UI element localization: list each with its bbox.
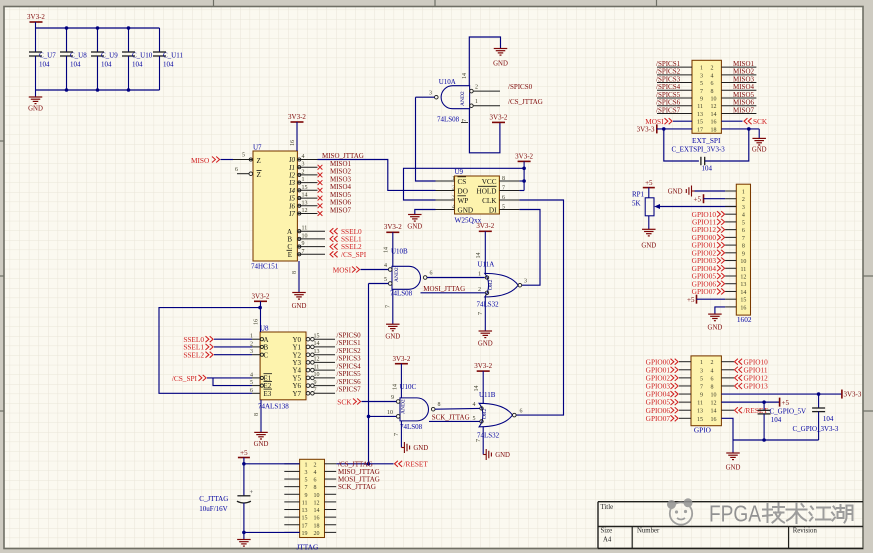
svg-text:16: 16 (290, 140, 296, 146)
JTAG row 5 pins 9/10 (284, 493, 299, 495)
svg-text:5: 5 (305, 478, 308, 484)
svg-text:MISO_JTTAG: MISO_JTTAG (322, 152, 364, 160)
ground (U11A) (484, 297, 486, 331)
1602 pin 5 (725, 221, 736, 223)
mux U7 body (253, 151, 297, 261)
svg-text:11: 11 (302, 226, 308, 232)
watermark glyph hu (832, 505, 853, 523)
wire WP to 3V3-2 rail (404, 168, 525, 200)
svg-text:+5: +5 (645, 179, 653, 187)
svg-text:8: 8 (711, 89, 714, 95)
svg-text:Y4: Y4 (292, 367, 301, 375)
1602 pin 4 (725, 213, 736, 215)
svg-text:GND: GND (28, 106, 43, 113)
capacitor C_GPIO_3V3-3 (818, 394, 820, 408)
svg-text:U9: U9 (455, 168, 464, 176)
svg-text:EXT_SPI: EXT_SPI (692, 136, 721, 145)
svg-text:1: 1 (478, 272, 481, 278)
svg-text:13: 13 (302, 200, 308, 206)
capacitor C_GPIO_5V (763, 402, 765, 410)
svg-text:DI: DI (489, 206, 497, 214)
svg-text:2: 2 (711, 66, 714, 72)
svg-text:/CS_SPI: /CS_SPI (341, 250, 367, 259)
decoder U8 body (260, 332, 306, 400)
svg-text:4: 4 (384, 263, 387, 269)
svg-text:104: 104 (39, 61, 50, 69)
svg-text:A4: A4 (603, 537, 612, 544)
watermark glyph shu (787, 503, 807, 523)
ground (C_JTTAG) (237, 539, 251, 541)
svg-text:11: 11 (697, 401, 703, 407)
svg-text:9: 9 (305, 493, 308, 499)
svg-text:5: 5 (242, 153, 245, 159)
svg-text:14: 14 (740, 290, 746, 296)
wire GND side to JTAG pin19 (244, 531, 300, 533)
svg-text:9: 9 (314, 380, 317, 386)
svg-text:Z: Z (257, 171, 261, 179)
power port 3V3-2 (U11B) (477, 370, 490, 372)
U10B input pin5 (388, 282, 392, 286)
svg-text:74ALS138: 74ALS138 (258, 403, 289, 411)
svg-text:4: 4 (314, 470, 317, 476)
ground (GPIO) (732, 440, 734, 453)
svg-text:U11B: U11B (479, 391, 496, 399)
svg-text:HOLD: HOLD (477, 187, 497, 195)
zone tick top1 (213, 0, 215, 7)
svg-text:MISO7: MISO7 (733, 106, 755, 114)
svg-text:U11A: U11A (478, 261, 495, 269)
svg-text:Z: Z (257, 157, 261, 165)
svg-text:WP: WP (458, 197, 469, 205)
svg-text:U10C: U10C (400, 383, 417, 391)
pin Y3 (306, 361, 310, 365)
gate U10A 74LS08 (441, 86, 470, 109)
1602 pin 7 (725, 236, 736, 238)
svg-text:Revision: Revision (793, 527, 818, 534)
wire bottom rail (36, 89, 160, 91)
svg-text:DO: DO (458, 187, 468, 195)
svg-text:9: 9 (391, 395, 394, 401)
power port +5 (JTAG) (238, 457, 250, 459)
pin I2 (297, 174, 317, 176)
power port 3V3-2 (U10A p7) (492, 121, 505, 123)
JTAG row 6 pins 11/12 (284, 501, 299, 503)
svg-text:7: 7 (476, 439, 482, 442)
svg-text:E3: E3 (264, 390, 272, 398)
zone tick left1 (0, 140, 4, 142)
svg-text:AND2: AND2 (460, 91, 466, 106)
zone tick right2 (863, 410, 873, 412)
wire /SPICS4 (657, 89, 692, 91)
pin E3 (252, 392, 260, 394)
svg-text:GPIO07: GPIO07 (646, 414, 671, 423)
svg-text:16: 16 (740, 305, 746, 311)
wire pin16 down (721, 418, 733, 440)
svg-text:17: 17 (302, 523, 308, 529)
svg-text:C_U11: C_U11 (163, 52, 183, 60)
power port 3V3-2 (U10C) (395, 363, 408, 365)
pin Y2 (306, 353, 310, 357)
wire /SPICS2 (657, 74, 692, 76)
svg-text:I4: I4 (288, 187, 295, 195)
svg-text:MOSI: MOSI (333, 265, 352, 274)
svg-text:SSEL2: SSEL2 (183, 350, 204, 359)
pin Y0 (306, 337, 310, 341)
wire MISO6 (721, 105, 756, 107)
svg-text:12: 12 (302, 208, 308, 214)
ground (cap bank) (35, 90, 37, 97)
svg-text:74LS08: 74LS08 (437, 116, 460, 124)
flash pin 7 HOLD (499, 190, 519, 192)
no-ERC X / net label MISO6 (318, 203, 323, 208)
pin I5 (297, 197, 317, 199)
svg-text:1: 1 (452, 176, 455, 182)
flash pin 2 DO (436, 190, 455, 192)
svg-text:6: 6 (711, 376, 714, 382)
JTAG row 1 pins 1/2 (284, 463, 299, 465)
port SSEL2 (330, 244, 338, 250)
svg-text:+5: +5 (782, 399, 790, 407)
no-ERC X / net label MISO4 (318, 188, 323, 193)
svg-text:14: 14 (314, 508, 320, 514)
svg-text:8: 8 (438, 402, 441, 408)
svg-text:U10B: U10B (391, 248, 408, 256)
svg-text:6: 6 (520, 409, 523, 415)
capacitor C_U8 (66, 28, 68, 52)
svg-text:3V3-2: 3V3-2 (27, 13, 45, 21)
no-ERC X / net label MISO3 (318, 180, 323, 185)
ground (U7) (298, 261, 300, 293)
svg-text:3: 3 (524, 279, 527, 285)
wire branch to E2 (213, 378, 252, 386)
svg-text:12: 12 (711, 401, 717, 407)
svg-text:2: 2 (475, 85, 478, 91)
svg-text:1: 1 (700, 360, 703, 366)
no-ERC X / net label MISO1 (318, 165, 323, 170)
pin 6 Zbar (237, 173, 249, 175)
JTAG row 2 pins 3/4 (284, 470, 299, 472)
svg-text:6: 6 (250, 388, 253, 394)
svg-text:8: 8 (254, 413, 260, 416)
svg-text:12: 12 (314, 500, 320, 506)
ground (U10A) (494, 48, 508, 50)
svg-text:+: + (250, 489, 254, 496)
svg-text:14: 14 (302, 193, 308, 199)
svg-text:15: 15 (314, 333, 320, 339)
svg-text:2: 2 (302, 169, 305, 175)
port GPIO13 (721, 385, 734, 387)
svg-text:13: 13 (302, 508, 308, 514)
svg-text:15: 15 (302, 185, 308, 191)
svg-text:14: 14 (474, 386, 480, 392)
svg-text:6: 6 (742, 228, 745, 234)
svg-text:12: 12 (711, 104, 717, 110)
wire /SPICS6 (657, 105, 692, 107)
1602 pin 1 (725, 190, 736, 192)
JTAG row 10 pins 19/20 (284, 531, 299, 533)
pin I0 (297, 159, 317, 161)
svg-text:6: 6 (314, 478, 317, 484)
svg-text:15: 15 (697, 417, 703, 423)
svg-text:Size: Size (601, 527, 613, 534)
svg-text:74LS32: 74LS32 (477, 432, 500, 440)
zone tick right1 (863, 275, 873, 277)
svg-text:Y7: Y7 (292, 390, 301, 398)
pin I7 (297, 213, 317, 215)
svg-text:GND: GND (385, 334, 400, 341)
wire MISO3 (721, 82, 756, 84)
U10B input pin4 (388, 268, 392, 272)
svg-text:GND: GND (478, 341, 493, 348)
svg-text:GND: GND (668, 189, 683, 196)
pin E1 (252, 377, 260, 379)
svg-text:104: 104 (702, 164, 713, 172)
svg-text:12: 12 (740, 274, 746, 280)
svg-text:GND: GND (254, 441, 269, 448)
port SSEL0 (330, 228, 338, 234)
svg-text:Y1: Y1 (292, 344, 301, 352)
svg-text:14: 14 (393, 384, 399, 390)
wire CLK to U11B out (516, 200, 563, 415)
svg-text:5: 5 (384, 277, 387, 283)
wire MISO_JTTAG to flash DO (318, 160, 436, 191)
pin B (297, 238, 325, 240)
port SSEL1 (330, 236, 338, 242)
svg-text:8: 8 (742, 244, 745, 250)
connector JTTAG body (300, 459, 325, 537)
pin16 stem (260, 308, 262, 332)
svg-text:GND: GND (726, 465, 741, 472)
wire +5 to JTAG pin1 (244, 463, 300, 465)
svg-text:C_U10: C_U10 (132, 52, 153, 60)
svg-text:10: 10 (314, 372, 320, 378)
svg-text:1: 1 (742, 190, 745, 196)
svg-text:7: 7 (462, 119, 468, 122)
svg-text:20: 20 (314, 531, 320, 537)
svg-text:SCK: SCK (337, 397, 352, 406)
U10A input pin1 /CS_JTTAG (470, 104, 474, 108)
svg-text:3V3-2: 3V3-2 (515, 153, 533, 161)
pin C (252, 354, 260, 356)
power port 3V3-2 (U11A) (479, 230, 492, 232)
svg-text:3: 3 (305, 470, 308, 476)
svg-text:17: 17 (697, 127, 703, 133)
svg-text:B: B (264, 344, 269, 352)
svg-text:7: 7 (314, 388, 317, 394)
svg-text:GND: GND (413, 445, 428, 452)
wire pin10 to 3V3-3 (721, 393, 842, 395)
wire /RESET net vertical (368, 284, 370, 464)
pin Y4 (306, 368, 310, 372)
svg-text:GND: GND (407, 224, 422, 231)
ground (U8) (260, 400, 262, 433)
svg-text:1: 1 (305, 462, 308, 468)
power port 3V3-2 (U10B) (386, 231, 399, 233)
svg-text:19: 19 (302, 531, 308, 537)
svg-text:104: 104 (771, 416, 782, 424)
svg-text:+5: +5 (687, 296, 695, 304)
ground (RP1) (648, 216, 650, 230)
svg-text:16: 16 (711, 120, 717, 126)
U11B output pin6 (513, 413, 517, 417)
svg-text:3V3-2: 3V3-2 (474, 362, 492, 370)
port SCK (EXT_SPI) (721, 120, 742, 122)
U11A output pin3 (518, 283, 522, 287)
ground (1602 pin1) sideways (692, 190, 695, 192)
zone tick top3 (656, 0, 658, 7)
resistor RP1 body (645, 198, 654, 216)
power port +5 (RP1) (643, 187, 655, 189)
svg-text:JTTAG: JTTAG (297, 542, 319, 551)
svg-text:104: 104 (101, 61, 112, 69)
svg-text:16: 16 (314, 516, 320, 522)
no-ERC X / net label MISO5 (318, 196, 323, 201)
svg-text:2: 2 (314, 462, 317, 468)
1602 pin 2 (725, 198, 736, 200)
1602 pin 16 (725, 306, 736, 308)
svg-text:9: 9 (302, 241, 305, 247)
svg-text:Number: Number (637, 527, 660, 534)
svg-text:13: 13 (314, 349, 320, 355)
wire /SPICS1 (657, 66, 692, 68)
svg-text:14: 14 (476, 253, 482, 259)
port /RESET (395, 461, 403, 467)
svg-text:E: E (288, 251, 292, 259)
watermark logo panda (668, 499, 692, 525)
svg-text:14: 14 (711, 409, 717, 415)
svg-text:1: 1 (302, 177, 305, 183)
svg-text:GPIO07: GPIO07 (692, 287, 717, 296)
pin A (252, 338, 260, 340)
svg-text:3: 3 (429, 91, 432, 97)
svg-text:C_JTTAG: C_JTTAG (199, 495, 228, 503)
port /RESET (GPIO pin14) (721, 409, 734, 411)
svg-text:11: 11 (314, 364, 320, 370)
1602 pin 9 (725, 252, 736, 254)
pin I3 (297, 182, 317, 184)
wire /CS_SPI to E1 (207, 377, 252, 379)
svg-text:15: 15 (740, 298, 746, 304)
JTAG row 3 pins 5/6 (284, 478, 299, 480)
svg-text:3V3-2: 3V3-2 (392, 355, 410, 363)
svg-text:8: 8 (292, 271, 298, 274)
gate U10C 74LS08 (400, 398, 429, 421)
svg-text:13: 13 (697, 112, 703, 118)
svg-text:3V3-3: 3V3-3 (844, 391, 862, 399)
svg-text:74LS32: 74LS32 (477, 301, 500, 309)
ground (1602 pin16) (715, 307, 725, 314)
svg-text:104: 104 (132, 61, 143, 69)
svg-text:16: 16 (254, 319, 260, 325)
svg-text:4: 4 (452, 204, 455, 210)
port GPIO11 (721, 369, 734, 371)
gate U11A 74LS32 (485, 273, 518, 297)
svg-text:10: 10 (302, 233, 308, 239)
svg-text:3: 3 (302, 162, 305, 168)
svg-text:74LS08: 74LS08 (400, 423, 423, 431)
svg-text:13: 13 (697, 409, 703, 415)
zone tick left3 (0, 410, 4, 412)
U10C input pin9 (396, 400, 400, 404)
title block outline (598, 501, 863, 503)
svg-text:16: 16 (711, 417, 717, 423)
svg-text:104: 104 (70, 61, 81, 69)
svg-text:7: 7 (394, 433, 400, 436)
title block dividers (631, 527, 633, 549)
no-ERC X / net label MISO7 (318, 211, 323, 216)
svg-text:10: 10 (314, 493, 320, 499)
capacitor C_U10 (128, 28, 130, 52)
svg-text:3: 3 (700, 368, 703, 374)
svg-text:8: 8 (502, 176, 505, 182)
connector 1602 body (736, 184, 750, 315)
svg-text:3V3-2: 3V3-2 (252, 292, 270, 300)
wire bottom rail (GPIO) (733, 439, 819, 441)
svg-text:U7: U7 (253, 144, 262, 152)
svg-text:5: 5 (502, 204, 505, 210)
svg-text:6: 6 (235, 167, 238, 173)
svg-text:/CS_JTTAG: /CS_JTTAG (508, 98, 543, 106)
1602 pin 14 (725, 290, 736, 292)
svg-text:9: 9 (700, 97, 703, 103)
svg-text:OR2: OR2 (488, 279, 494, 290)
zone tick top2 (434, 0, 436, 7)
zone tick left2 (0, 275, 4, 277)
svg-text:104: 104 (823, 415, 834, 423)
svg-text:3V3-2: 3V3-2 (476, 222, 494, 230)
ground (U10B) (392, 289, 394, 324)
1602 pin 11 (725, 267, 736, 269)
wire /SPICS7 (657, 112, 692, 114)
U10A output pin3 (435, 95, 439, 99)
svg-text:C_GPIO_5V: C_GPIO_5V (770, 408, 807, 416)
connector EXT_SPI body (692, 60, 721, 133)
svg-text:3V3-2: 3V3-2 (384, 223, 402, 231)
svg-text:4: 4 (742, 213, 745, 219)
svg-text:5: 5 (700, 376, 703, 382)
svg-text:14: 14 (462, 73, 468, 79)
svg-text:C_EXTSPI_3V3-3: C_EXTSPI_3V3-3 (672, 145, 726, 153)
flash pin 8 VCC (499, 180, 519, 182)
capacitor C_JTTAG (237, 495, 250, 497)
svg-text:3V3-3: 3V3-3 (637, 126, 655, 134)
svg-text:U10A: U10A (439, 78, 456, 86)
wire /SPICS3 (657, 82, 692, 84)
pin Y5 (306, 376, 310, 380)
svg-text:3: 3 (452, 195, 455, 201)
pin I4 (297, 189, 317, 191)
svg-text:14: 14 (711, 112, 717, 118)
wire 3V3-2 to E3 loop (159, 308, 260, 394)
svg-text:4: 4 (302, 154, 305, 160)
svg-text:MOSI_JTTAG: MOSI_JTTAG (423, 285, 465, 293)
junction (65, 26, 69, 30)
svg-text:5: 5 (742, 220, 745, 226)
pin I1 (297, 166, 317, 168)
svg-text:74HC151: 74HC151 (251, 263, 279, 271)
wire JTAG pin2 row (336, 463, 393, 465)
pin Y1 (306, 345, 310, 349)
svg-text:1602: 1602 (737, 315, 752, 324)
svg-text:8: 8 (314, 485, 317, 491)
no-ERC X / net label MISO2 (318, 173, 323, 178)
wire MISO4 (721, 89, 756, 91)
svg-text:GND: GND (292, 303, 307, 310)
svg-text:FPGA: FPGA (709, 501, 761, 527)
svg-text:7: 7 (700, 384, 703, 390)
JTAG row 4 pins 7/8 (284, 486, 299, 488)
svg-text:11: 11 (302, 500, 308, 506)
